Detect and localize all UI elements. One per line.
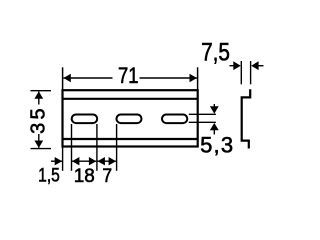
dimension 35: arrowheads (34, 91, 43, 98)
rail front view outline (63, 90, 198, 146)
dimension 1,5: tail line and arrowhead (51, 160, 62, 162)
dimension 5,3: upper arrow (213, 104, 215, 108)
svg-text:7: 7 (102, 164, 112, 186)
dimension 35: extension lines (31, 91, 52, 149)
bottom extension lines (63, 124, 117, 171)
svg-text:35: 35 (28, 105, 50, 134)
svg-text:7,5: 7,5 (201, 38, 230, 66)
svg-text:71: 71 (118, 65, 139, 89)
side profile (hat rail cross-section) (242, 89, 251, 148)
dimension 71: extension lines (63, 67, 198, 90)
dimension 7,5: right arrow (258, 65, 264, 67)
dimension 5,3: extension lines (189, 114, 216, 122)
svg-text:18: 18 (74, 166, 95, 187)
bottom fold line (63, 138, 198, 140)
top fold line (63, 98, 198, 100)
svg-text:1,5: 1,5 (38, 164, 60, 186)
dimension 71: arrowheads (63, 74, 70, 83)
dimension 35: dimension line (38, 92, 40, 148)
slot 3 (162, 115, 187, 124)
dimension 18: line and arrowheads (72, 160, 96, 162)
dimension 7,5: left arrow (230, 65, 234, 67)
slot 2 (117, 115, 142, 124)
dimension 71: dimension line (63, 77, 197, 79)
dimension 7,5: extension lines (241, 61, 250, 84)
svg-text:5,3: 5,3 (200, 132, 234, 157)
dimension 5,3: lower arrow (213, 129, 215, 135)
dimension 7: line and arrowheads (98, 160, 117, 162)
slot 1 (72, 115, 98, 124)
